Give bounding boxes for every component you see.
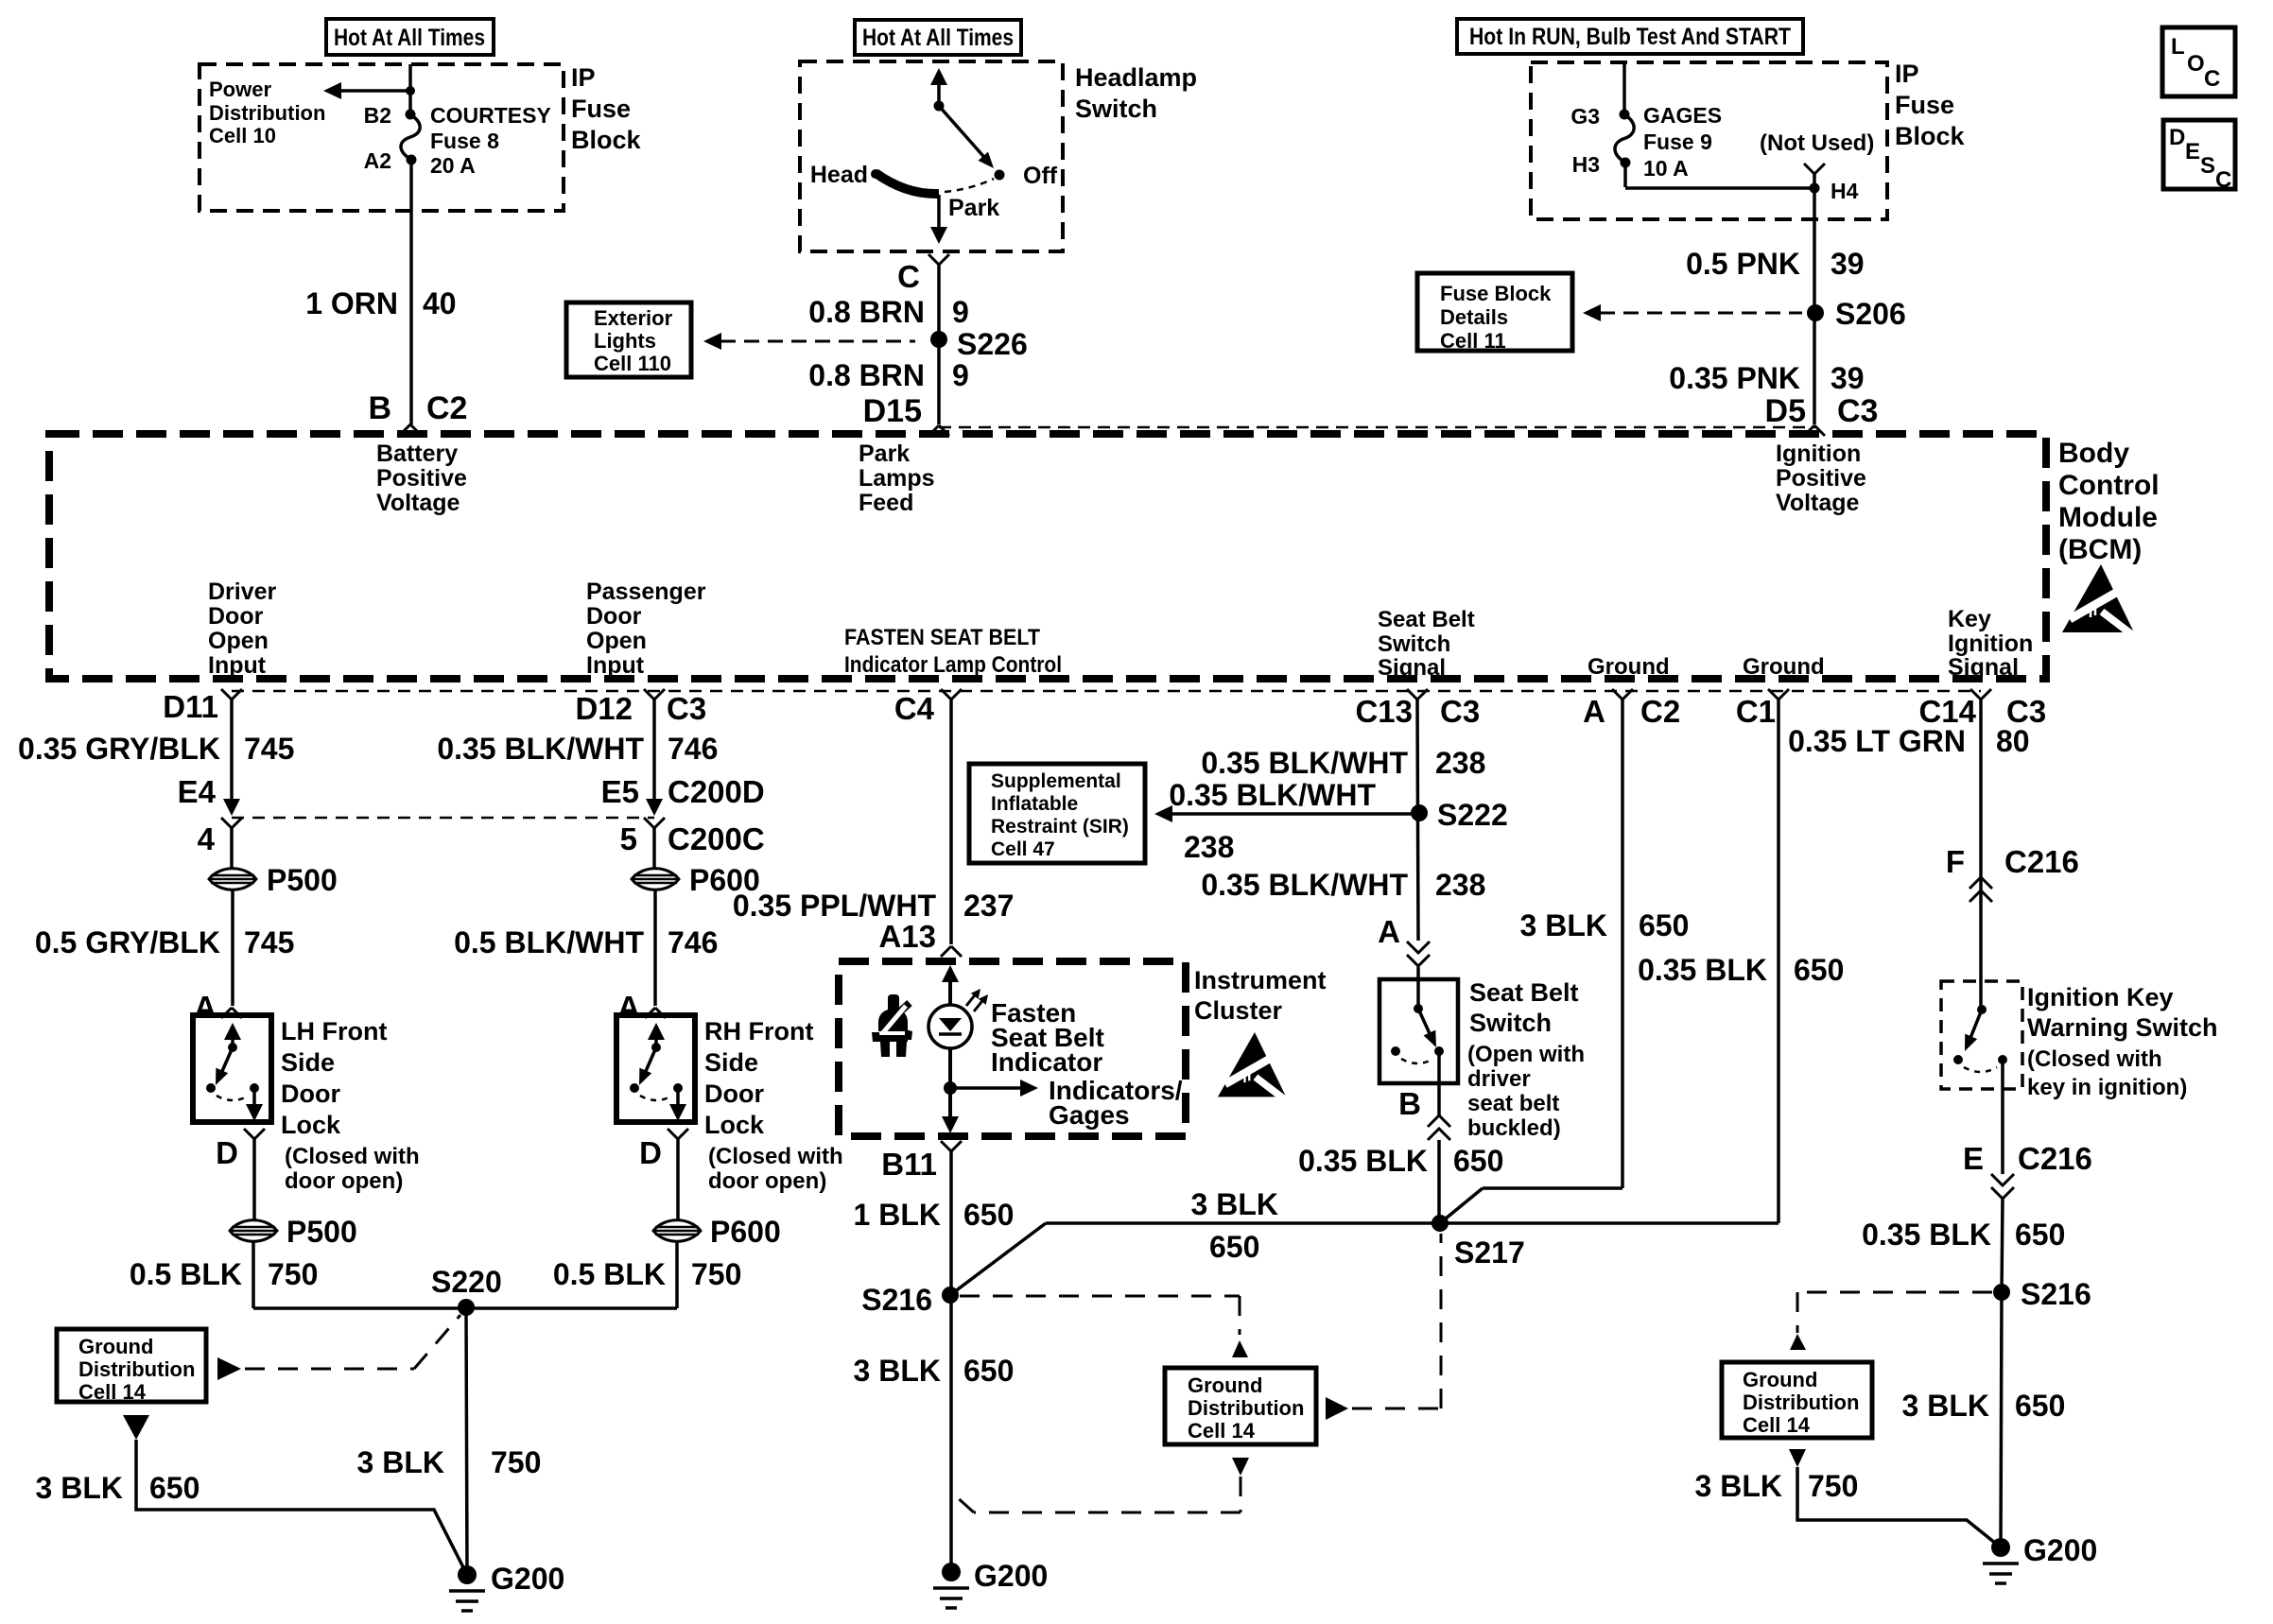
label pin E4 — [178, 774, 217, 809]
label: Power Distribution Cell 10 — [209, 78, 325, 147]
svg-text:Lights: Lights — [594, 329, 656, 353]
svg-text:0.35 BLK/WHT: 0.35 BLK/WHT — [437, 732, 644, 766]
svg-text:P600: P600 — [710, 1215, 781, 1249]
wire: into seat belt switch — [1416, 967, 1420, 1009]
wire label: 3 BLK 650 (ground A) — [1520, 908, 1690, 942]
svg-text:S206: S206 — [1835, 297, 1906, 331]
label pin B (seat belt switch) — [1398, 1086, 1421, 1121]
wire label: 1 ORN 40 — [305, 286, 456, 320]
wire: ground distribution to G200 (left) — [136, 1440, 467, 1575]
svg-text:Cell 14: Cell 14 — [1743, 1413, 1811, 1437]
wire: LH lock D to P500 lower — [252, 1139, 256, 1219]
wire label: 3 BLK 750 (right) — [1695, 1469, 1859, 1503]
svg-text:Details: Details — [1440, 305, 1508, 329]
LH lock switch arm — [216, 1047, 233, 1085]
svg-text:Hot At All Times: Hot At All Times — [334, 25, 485, 51]
svg-text:0.5 GRY/BLK: 0.5 GRY/BLK — [35, 925, 220, 959]
svg-text:S: S — [2200, 153, 2215, 179]
Exterior Lights Cell 110 box — [566, 302, 691, 377]
Ground Distribution Cell 14 box (left) — [57, 1329, 206, 1404]
svg-text:Inflatable: Inflatable — [991, 793, 1078, 815]
svg-text:9: 9 — [952, 358, 969, 392]
svg-text:C200D: C200D — [668, 774, 765, 809]
label pin E / C216 — [1963, 1141, 2092, 1176]
svg-text:746: 746 — [668, 925, 718, 959]
in-line connector chevrons below seat belt switch — [1428, 1115, 1450, 1140]
svg-text:A: A — [617, 990, 640, 1025]
pin A2 terminal dot — [407, 155, 417, 165]
connector flare into RH door lock — [645, 1008, 666, 1018]
svg-text:S216: S216 — [861, 1283, 932, 1317]
svg-text:C3: C3 — [1440, 694, 1480, 729]
svg-text:0.35 PNK: 0.35 PNK — [1669, 361, 1800, 395]
headlamp Head terminal dot — [871, 169, 880, 179]
svg-text:seat belt: seat belt — [1467, 1091, 1559, 1116]
svg-text:Cell 14: Cell 14 — [1188, 1419, 1256, 1443]
connector flare (Not Used) stub — [1804, 164, 1825, 188]
wire: Park output with down arrow — [930, 195, 947, 244]
svg-text:0.35 BLK: 0.35 BLK — [1638, 953, 1767, 987]
arrow to Indicators/Gages — [950, 1080, 1038, 1097]
svg-text:Cell 47: Cell 47 — [991, 838, 1055, 860]
svg-text:650: 650 — [1794, 953, 1844, 987]
svg-text:Warning Switch: Warning Switch — [2027, 1013, 2218, 1042]
connector flare into LH door lock — [221, 1008, 242, 1018]
svg-text:Ground: Ground — [78, 1335, 153, 1358]
svg-text:door open): door open) — [285, 1168, 403, 1194]
connector flare at BCM pin B/C2 — [400, 424, 421, 435]
label pin A13 — [878, 919, 936, 954]
RH lock switch arm — [639, 1047, 656, 1085]
ignition switch pivot dot — [1977, 1005, 1987, 1014]
svg-text:3 BLK: 3 BLK — [1520, 908, 1607, 942]
svg-text:(Closed with: (Closed with — [2027, 1046, 2162, 1072]
svg-text:B: B — [368, 390, 391, 426]
svg-text:650: 650 — [963, 1354, 1014, 1388]
svg-text:237: 237 — [963, 889, 1014, 923]
svg-text:Instrument: Instrument — [1194, 966, 1327, 994]
svg-text:80: 80 — [1996, 724, 2030, 758]
svg-text:H3: H3 — [1572, 152, 1600, 177]
svg-text:0.35 BLK/WHT: 0.35 BLK/WHT — [1169, 778, 1376, 812]
svg-text:Cluster: Cluster — [1194, 996, 1283, 1025]
LOC reference box — [2162, 27, 2235, 96]
in-line connector C216 chevrons (E) — [1991, 1174, 2014, 1199]
svg-text:G200: G200 — [2023, 1533, 2097, 1567]
dashed reference line to Exterior Lights — [703, 333, 915, 350]
label: Seat Belt Switch — [1469, 978, 1579, 1037]
svg-text:Fuse: Fuse — [1895, 91, 1954, 119]
reference arrow right of middle Ground Distribution box — [1326, 1397, 1348, 1420]
pin B2 terminal dot — [406, 110, 416, 120]
LED light rays — [966, 989, 988, 1011]
label: GAGES Fuse 9 10 A — [1643, 103, 1722, 181]
seat belt switch right terminal dot — [1434, 1046, 1444, 1056]
wire: C4 to A13 — [949, 700, 953, 944]
svg-text:650: 650 — [963, 1198, 1014, 1232]
wire label: 0.5 PNK 39 — [1686, 247, 1865, 281]
label H3 — [1572, 152, 1600, 177]
svg-text:0.35 PPL/WHT: 0.35 PPL/WHT — [733, 889, 937, 923]
svg-text:Cell 10: Cell 10 — [209, 124, 276, 147]
svg-text:Seat Belt: Seat Belt — [1378, 607, 1475, 632]
svg-text:C3: C3 — [667, 691, 706, 726]
svg-text:Ground: Ground — [1188, 1373, 1262, 1397]
BCM top edge thin dashed segment — [939, 426, 1815, 429]
svg-text:GAGES: GAGES — [1643, 103, 1722, 128]
wire: fuse block feed vertical (x=434) — [410, 64, 411, 424]
label: Headlamp Switch — [1075, 63, 1197, 123]
svg-text:238: 238 — [1184, 830, 1234, 864]
svg-text:Cell 11: Cell 11 — [1440, 329, 1506, 353]
svg-text:Control: Control — [2058, 470, 2160, 501]
BCM pin label: FASTEN SEAT BELT Indicator Lamp Control — [844, 625, 1062, 678]
svg-text:Door: Door — [704, 1080, 764, 1108]
connector boundary thin dashed line below BCM — [232, 690, 1981, 693]
svg-text:39: 39 — [1831, 247, 1865, 281]
svg-text:C1: C1 — [1736, 694, 1776, 729]
svg-text:G3: G3 — [1570, 104, 1600, 129]
svg-text:3 BLK: 3 BLK — [1902, 1389, 1989, 1423]
reference arrow above right Ground Distribution box — [1790, 1334, 1806, 1350]
connector flare pin B11 — [881, 1141, 962, 1182]
ESD symbol (instrument cluster) — [1218, 1032, 1290, 1103]
label pin A (LH lock) — [194, 990, 217, 1025]
wire: ground A/C2 to S217 — [1440, 700, 1622, 1223]
svg-text:Driver: Driver — [208, 579, 277, 605]
connector flare pin C14 / C3 — [1918, 689, 2046, 729]
label A2 — [364, 148, 391, 173]
svg-text:Feed: Feed — [859, 490, 913, 516]
svg-text:Door: Door — [586, 603, 642, 630]
svg-text:Distribution: Distribution — [1743, 1391, 1859, 1414]
svg-text:Voltage: Voltage — [376, 490, 460, 516]
svg-text:S216: S216 — [2021, 1277, 2091, 1311]
svg-text:Distribution: Distribution — [78, 1357, 195, 1381]
fuse F8 COURTESY element — [401, 114, 420, 160]
svg-text:E5: E5 — [601, 774, 639, 809]
wire: S222 to SIR reference — [1154, 805, 1419, 822]
svg-text:P500: P500 — [286, 1215, 357, 1249]
svg-text:O: O — [2187, 51, 2205, 77]
svg-text:C: C — [897, 259, 920, 294]
seat belt switch left terminal dot — [1391, 1046, 1400, 1056]
wire: ignition feed vertical (x=1919) — [1813, 188, 1816, 424]
svg-text:Off: Off — [1023, 163, 1058, 189]
svg-text:LH Front: LH Front — [281, 1017, 387, 1045]
svg-text:Door: Door — [208, 603, 264, 630]
wire: pin 4 to P500 — [230, 828, 234, 868]
svg-text:39: 39 — [1831, 361, 1865, 395]
svg-text:Cell 110: Cell 110 — [594, 352, 671, 375]
wire: B to S217 — [1437, 1140, 1441, 1223]
connector flare at BCM pin D15 — [928, 425, 949, 436]
wire label: 0.35 GRY/BLK 745 — [18, 732, 294, 766]
wire: B11 to G200 (middle) — [949, 1151, 953, 1572]
svg-text:Park: Park — [948, 195, 999, 221]
reference arrow below left Ground Distribution box — [123, 1415, 149, 1440]
LED triangle — [939, 1018, 962, 1031]
svg-text:F: F — [1946, 844, 1965, 879]
wire: S220 to G200 (left) — [466, 1307, 467, 1575]
svg-text:E4: E4 — [178, 774, 217, 809]
wire: P600 to RH door lock — [653, 890, 657, 1006]
seat belt switch arm — [1418, 1009, 1436, 1047]
label: Body Control Module (BCM) — [2058, 438, 2160, 565]
svg-text:1 ORN: 1 ORN — [305, 286, 398, 320]
svg-text:C216: C216 — [2004, 844, 2079, 879]
wire label: 3 BLK 650 (right) — [1902, 1389, 2066, 1423]
svg-text:238: 238 — [1435, 746, 1485, 780]
wire: right ground distribution to G200 — [1797, 1467, 2001, 1547]
svg-text:Door: Door — [281, 1080, 340, 1108]
headlamp Off terminal dot — [995, 170, 1005, 181]
svg-text:Ignition: Ignition — [1948, 631, 2033, 657]
label pin A (RH lock) — [617, 990, 640, 1025]
svg-text:D12: D12 — [575, 691, 633, 726]
LH lock right terminal dot — [250, 1083, 259, 1093]
BCM pin label: Key Ignition Signal — [1948, 606, 2033, 681]
label: (Closed with key in ignition) — [2027, 1046, 2187, 1100]
svg-text:Fuse 8: Fuse 8 — [430, 129, 499, 153]
wire label: 0.35 BLK 650 (ground C1) — [1638, 953, 1844, 987]
label B2 — [364, 103, 391, 128]
ground G200 (right) — [1983, 1533, 2097, 1583]
svg-text:(Closed with: (Closed with — [285, 1144, 420, 1169]
label: Ignition Key Warning Switch — [2027, 983, 2218, 1042]
wire label: 0.35 BLK/WHT 238 (lower) — [1201, 868, 1485, 902]
svg-text:S226: S226 — [957, 327, 1028, 361]
svg-text:0.35 BLK: 0.35 BLK — [1298, 1144, 1428, 1178]
svg-text:S217: S217 — [1454, 1235, 1525, 1270]
svg-text:Hot In RUN, Bulb Test And STAR: Hot In RUN, Bulb Test And START — [1469, 24, 1791, 50]
label: Fasten Seat Belt Indicator — [991, 998, 1104, 1077]
svg-text:Fuse: Fuse — [571, 95, 631, 123]
RH lock internal up arrow — [648, 1023, 665, 1047]
svg-text:C2: C2 — [426, 390, 467, 426]
connector flare pin 5 / C200C — [620, 818, 765, 856]
wire: pin 5 to P600 — [652, 828, 656, 868]
wire label: 238 (SIR) — [1184, 830, 1234, 864]
dashed reference S216 to middle Ground Distribution box — [960, 1296, 1240, 1335]
svg-text:745: 745 — [244, 732, 294, 766]
splice S220 — [431, 1265, 502, 1316]
wire: RH lock D to P600 lower — [676, 1139, 680, 1219]
connector flare pin C13 / C3 — [1355, 689, 1480, 729]
fasten seat belt person icon — [872, 994, 912, 1057]
svg-text:Ignition Key: Ignition Key — [2027, 983, 2174, 1011]
arrow to Power Distribution — [323, 82, 410, 99]
svg-text:Input: Input — [586, 652, 645, 679]
connector flare pin D (RH) — [639, 1129, 688, 1170]
svg-text:750: 750 — [491, 1445, 541, 1479]
svg-text:S222: S222 — [1437, 798, 1508, 832]
headlamp switch arm to Off — [939, 106, 994, 168]
svg-text:Distribution: Distribution — [1188, 1396, 1304, 1420]
svg-text:B11: B11 — [881, 1147, 937, 1182]
connector flare pin C1 — [1736, 689, 1789, 729]
svg-text:Passenger: Passenger — [586, 579, 706, 605]
svg-text:(Open with: (Open with — [1467, 1042, 1585, 1067]
Body Control Module (BCM) dashed box — [49, 434, 2046, 679]
ignition switch right terminal dot — [1998, 1055, 2007, 1064]
svg-text:COURTESY: COURTESY — [430, 103, 551, 128]
svg-text:Power: Power — [209, 78, 271, 101]
svg-text:745: 745 — [244, 925, 294, 959]
svg-text:746: 746 — [668, 732, 718, 766]
ESD symbol (BCM) — [2062, 564, 2138, 639]
svg-text:Gages: Gages — [1049, 1100, 1130, 1130]
svg-text:Switch: Switch — [1075, 95, 1157, 123]
wire label: 3 BLK 650 (left) — [36, 1471, 200, 1505]
svg-text:Switch: Switch — [1469, 1009, 1552, 1037]
svg-text:Open: Open — [586, 628, 647, 654]
svg-text:A: A — [194, 990, 217, 1025]
RH Front Side Door Lock switch box — [616, 1015, 695, 1122]
wire label: 0.35 PPL/WHT 237 — [733, 889, 1015, 923]
svg-text:FASTEN SEAT BELT: FASTEN SEAT BELT — [844, 625, 1040, 650]
svg-text:3 BLK: 3 BLK — [1695, 1469, 1782, 1503]
svg-text:C3: C3 — [1837, 393, 1878, 429]
svg-text:Input: Input — [208, 652, 267, 679]
RH lock dashed arc — [640, 1096, 672, 1100]
BCM pin label: Ignition Positive Voltage — [1776, 441, 1866, 516]
reference arrow right of left Ground Distribution box — [217, 1357, 241, 1380]
fasten seat belt LED circle — [928, 1005, 972, 1048]
RH lock output arrow — [669, 1088, 686, 1121]
BCM pin label: Ground (A) — [1588, 654, 1670, 680]
wire: driver door input D11 to E4 — [223, 700, 240, 816]
node: junction to power distribution — [406, 86, 415, 95]
svg-text:Fuse Block: Fuse Block — [1440, 282, 1552, 305]
svg-text:Lamps: Lamps — [859, 465, 935, 492]
svg-text:Lock: Lock — [704, 1111, 765, 1139]
label: (Closed with door open) RH — [708, 1144, 843, 1194]
RH lock left terminal dot — [630, 1083, 639, 1093]
connector flare at BCM pin D5 — [1804, 425, 1825, 436]
svg-text:Block: Block — [571, 126, 642, 154]
svg-text:5: 5 — [620, 821, 637, 856]
svg-text:C4: C4 — [894, 691, 935, 726]
label S226 — [957, 327, 1028, 361]
svg-text:Positive: Positive — [1776, 465, 1866, 492]
label: Instrument Cluster — [1194, 966, 1327, 1025]
connector flare at cluster pin A13 — [941, 946, 962, 957]
label: IP Fuse Block (right) — [1895, 60, 1966, 150]
label S206 — [1835, 297, 1906, 331]
svg-text:650: 650 — [2015, 1389, 2065, 1423]
reference arrow above middle Ground Distribution box — [1232, 1340, 1248, 1357]
svg-text:D15: D15 — [863, 393, 922, 429]
ground G200 (left) — [449, 1562, 564, 1611]
connector flare pin D (LH) — [216, 1129, 265, 1170]
svg-text:Distribution: Distribution — [209, 101, 325, 125]
svg-text:10 A: 10 A — [1643, 156, 1689, 181]
svg-text:Park: Park — [859, 441, 910, 467]
Supplemental Inflatable Restraint (SIR) Cell 47 box — [969, 764, 1145, 863]
connector C200 thin dashed line — [232, 817, 654, 820]
svg-text:Seat Belt: Seat Belt — [1469, 978, 1579, 1007]
svg-text:(Not Used): (Not Used) — [1760, 130, 1874, 156]
pass-through connector P600 (upper) — [632, 863, 760, 897]
svg-text:Open: Open — [208, 628, 269, 654]
RH lock right terminal dot — [673, 1083, 683, 1093]
svg-text:Hot At All Times: Hot At All Times — [862, 25, 1014, 51]
label (Not Used) — [1760, 130, 1874, 156]
Ignition Key Warning Switch dashed box — [1941, 981, 2022, 1089]
RH lock pivot dot — [651, 1043, 661, 1052]
svg-text:D11: D11 — [163, 689, 218, 724]
pin G3 terminal dot — [1620, 110, 1630, 120]
svg-text:Indicator Lamp Control: Indicator Lamp Control — [844, 652, 1062, 678]
wire: E to G200 (right) — [2001, 1199, 2003, 1547]
BCM pin label: Ground (C1) — [1743, 654, 1825, 680]
wire label: 0.8 BRN 9 (lower) — [808, 358, 969, 392]
seat belt switch dashed arc — [1401, 1059, 1433, 1063]
ignition switch arm — [1965, 1010, 1982, 1051]
svg-text:Ground: Ground — [1743, 654, 1825, 680]
Headlamp Switch dashed box — [800, 61, 1063, 251]
svg-text:E: E — [2185, 139, 2200, 164]
svg-text:IP: IP — [1895, 60, 1919, 88]
svg-text:H4: H4 — [1831, 179, 1859, 203]
pass-through connector P500 (lower) — [230, 1215, 357, 1249]
svg-text:Positive: Positive — [376, 465, 467, 492]
svg-text:RH Front: RH Front — [704, 1017, 813, 1045]
seat belt switch pivot dot — [1414, 1004, 1423, 1013]
svg-text:buckled): buckled) — [1467, 1115, 1561, 1141]
svg-text:4: 4 — [198, 821, 216, 856]
reference arrow below right Ground Distribution box — [1789, 1449, 1806, 1467]
svg-text:650: 650 — [1639, 908, 1689, 942]
label: Indicators/ Gages — [1049, 1076, 1183, 1130]
wire label: 0.35 BLK/WHT (SIR) — [1169, 778, 1376, 812]
svg-text:650: 650 — [149, 1471, 200, 1505]
dashed reference middle box to S217 — [1352, 1234, 1441, 1408]
cluster internal up arrow — [942, 965, 959, 1005]
wire: P500 to LH door lock — [231, 890, 234, 1006]
label Head — [810, 162, 868, 188]
LH Front Side Door Lock switch box — [193, 1015, 271, 1122]
wire: S216 diagonal to S217 horizontal run — [950, 1223, 1778, 1295]
wire label: 3 BLK 650 (S216-S217 run) — [1191, 1187, 1278, 1264]
svg-text:D: D — [2169, 125, 2185, 150]
svg-text:C200C: C200C — [668, 821, 765, 856]
wire label: 0.5 BLK 750 (RH) — [553, 1257, 742, 1291]
svg-text:0.5 PNK: 0.5 PNK — [1686, 247, 1800, 281]
wire: P600 lower to S220 — [466, 1242, 677, 1308]
LH lock output arrow — [246, 1088, 263, 1121]
svg-text:Ignition: Ignition — [1776, 441, 1861, 467]
label: LH Front Side Door Lock — [281, 1017, 387, 1139]
svg-text:0.35 BLK/WHT: 0.35 BLK/WHT — [1201, 746, 1408, 780]
label: (Open with driver seat belt buckled) — [1467, 1042, 1585, 1141]
wire label: 0.35 PNK 39 — [1669, 361, 1864, 395]
svg-text:Switch: Switch — [1378, 631, 1450, 657]
svg-text:40: 40 — [423, 286, 457, 320]
svg-text:A: A — [1378, 914, 1400, 949]
LH lock dashed arc — [217, 1096, 249, 1100]
svg-text:P500: P500 — [267, 863, 338, 897]
svg-text:C216: C216 — [2018, 1141, 2092, 1176]
svg-text:0.35 GRY/BLK: 0.35 GRY/BLK — [18, 732, 220, 766]
connector flare C below headlamp switch — [928, 254, 949, 424]
connector flare pin D12 / C3 — [575, 689, 706, 726]
connector flare pin D11 — [163, 689, 242, 724]
in-line connector chevrons above seat belt switch — [1407, 942, 1430, 966]
dashed reference line to Fuse Block Details — [1583, 304, 1802, 321]
svg-text:(BCM): (BCM) — [2058, 534, 2142, 565]
